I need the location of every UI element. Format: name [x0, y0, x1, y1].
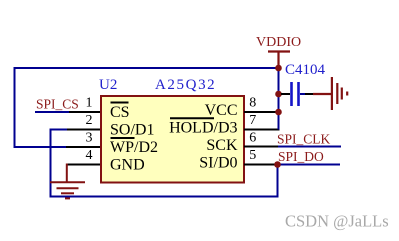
svg-text:VDDIO: VDDIO [256, 35, 301, 50]
wire SPI_DO [278, 164, 341, 166]
pin 6 line [244, 146, 278, 148]
svg-text:2: 2 [86, 113, 93, 128]
ground symbol GND1 [50, 164, 85, 199]
wire SPI_CLK [278, 146, 341, 148]
pin 7 line [244, 129, 280, 131]
svg-text:SI/D0: SI/D0 [199, 154, 237, 171]
wire left vertical riser [14, 67, 16, 148]
svg-text:4: 4 [86, 148, 93, 163]
svg-text:SPI_CLK: SPI_CLK [277, 132, 331, 147]
ground symbol GND2 (rotated) [313, 77, 347, 110]
pin 1 line [69, 111, 101, 113]
svg-text:WP/D2: WP/D2 [110, 139, 158, 156]
svg-text:U2: U2 [99, 77, 117, 93]
svg-text:SPI_CS: SPI_CS [36, 97, 79, 112]
svg-text:1: 1 [86, 96, 93, 111]
power port VDDIO [256, 35, 301, 68]
wire pin 2 to drop [50, 129, 68, 131]
svg-text:SCK: SCK [206, 137, 238, 154]
svg-text:7: 7 [249, 113, 256, 128]
svg-text:8: 8 [249, 96, 256, 111]
wire drop vertical [50, 129, 52, 198]
junction at pin 5 [274, 161, 281, 168]
svg-text:VCC: VCC [205, 102, 238, 119]
svg-text:HOLD/D3: HOLD/D3 [169, 120, 237, 137]
svg-text:C4104: C4104 [285, 62, 326, 78]
chip U2 body [101, 96, 244, 183]
pin 5 line [244, 164, 278, 166]
svg-text:CS: CS [110, 104, 130, 121]
pin name HOLD/D3 with overline [169, 118, 237, 136]
pin name CS with overline [110, 103, 130, 122]
pin name WP/D2 with overline [110, 138, 158, 156]
wire VDDIO vertical riser to pin 7 [278, 68, 280, 130]
junction at pin 8 [275, 109, 282, 116]
wire horizontal into pin 3 [14, 146, 68, 148]
wire SPI_CS stub [35, 111, 70, 113]
svg-text:SPI_DO: SPI_DO [278, 149, 324, 164]
svg-text:SO/D1: SO/D1 [110, 122, 154, 139]
svg-text:A25Q32: A25Q32 [155, 77, 216, 93]
pin 3 line [66, 146, 101, 148]
pin 4 line [66, 164, 101, 166]
pin 2 line [66, 129, 101, 131]
svg-text:3: 3 [86, 131, 93, 146]
pin 8 line [244, 111, 279, 113]
svg-text:GND: GND [110, 157, 145, 174]
junction at capacitor tap [275, 91, 282, 98]
wire riser up to pin 5 junction [277, 164, 279, 198]
svg-text:CSDN @JaLLs: CSDN @JaLLs [285, 212, 389, 231]
capacitor C4104 [281, 82, 314, 106]
wire top horizontal from left riser to VDDIO junction [15, 67, 279, 69]
svg-text:5: 5 [249, 148, 256, 163]
wire bottom horizontal [50, 196, 279, 198]
svg-text:6: 6 [249, 131, 256, 146]
junction at VDDIO wire [275, 65, 282, 72]
